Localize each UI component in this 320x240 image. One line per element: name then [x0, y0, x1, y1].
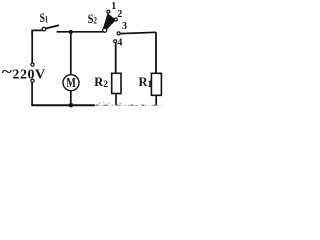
wire R1 bottom stub [155, 95, 157, 105]
motor M [63, 75, 79, 91]
svg-text:3: 3 [122, 21, 127, 32]
contact 2 [114, 18, 117, 21]
wire bottom faint dashed (watermark residue) [95, 104, 162, 106]
wire left vertical upper [31, 30, 33, 63]
watermark speck 2 [103, 102, 104, 103]
resistor R1 [151, 73, 161, 95]
watermark speck 4 [120, 103, 122, 104]
AC source terminal bottom [31, 79, 34, 82]
svg-text:4: 4 [117, 38, 122, 49]
node junction top (motor branch) [69, 30, 73, 34]
switch S2 pivot [103, 28, 107, 32]
wire top right segment [57, 31, 104, 33]
svg-text:2: 2 [117, 9, 122, 20]
contact 1 [107, 10, 110, 13]
AC source terminal top [31, 63, 34, 66]
wire bottom faint dashed darker segments [96, 104, 162, 106]
wire top-left corner and horizontal segment to S1 [32, 30, 42, 36]
wire motor branch vertical lower [70, 91, 72, 106]
svg-text:220V: 220V [12, 67, 45, 82]
wire R2 bottom stub [115, 94, 117, 106]
switch S1 arm [46, 25, 59, 28]
node junction bottom (motor to bottom wire) [69, 103, 74, 108]
contact 4 [114, 40, 117, 43]
wire motor branch vertical upper [70, 32, 72, 75]
watermark speck 3 [108, 103, 109, 104]
wire left vertical lower [31, 82, 33, 105]
resistor R2 [112, 73, 121, 93]
switch S1 pivot [42, 27, 46, 31]
svg-text:~: ~ [2, 65, 12, 81]
svg-text:1: 1 [111, 1, 116, 12]
wire contact3 to top-right corner [120, 32, 156, 33]
svg-text:M: M [66, 75, 76, 90]
watermark speck 1 [99, 103, 101, 104]
switch S2 blade [102, 13, 116, 32]
wire right vertical [155, 32, 157, 73]
contact 3 [117, 32, 120, 35]
wire bottom solid [31, 104, 95, 106]
wire contact4 down to R2 [115, 43, 117, 74]
